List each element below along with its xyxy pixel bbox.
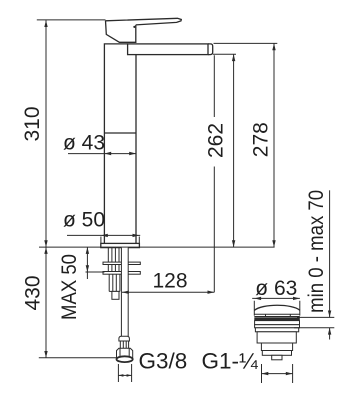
dim MAX 50 arrow down <box>86 265 89 272</box>
dim 262 line <box>233 54 235 247</box>
dim 310 arrow down <box>44 240 47 247</box>
dim 128 extension line from spout end <box>213 55 215 292</box>
dim o43 arrow right <box>129 152 136 155</box>
dim 128 arrow right <box>208 291 215 294</box>
drain bottom dim arrow right <box>286 372 293 375</box>
drain rim lines <box>254 314 299 316</box>
svg-text:ø 63: ø 63 <box>255 277 297 300</box>
dim min-max line upper <box>329 190 331 317</box>
hose neck <box>120 341 128 348</box>
dim min-max ext line lower <box>294 327 334 329</box>
dim o50 ext right <box>138 237 140 244</box>
dim 262 arrow down <box>232 240 235 247</box>
drain small block <box>262 351 291 356</box>
dim o43 line <box>68 153 136 155</box>
body joint line <box>104 132 136 134</box>
drain body block <box>257 332 296 343</box>
drain band 2 <box>255 325 300 328</box>
G3/8 dim ext right <box>131 364 133 382</box>
dim o43 arrow left <box>104 152 111 155</box>
mounting nut <box>109 274 120 291</box>
svg-text:G3/8: G3/8 <box>139 348 188 373</box>
hex nut bottom rim ellipse <box>117 356 133 362</box>
dim o63 arrow left <box>254 297 261 300</box>
hose collar <box>119 336 129 341</box>
counter top line <box>39 246 275 248</box>
dim min-max ext line upper <box>297 316 334 318</box>
threaded stud upper <box>108 248 119 263</box>
drain bottom dim ext left <box>261 364 263 383</box>
drain mid block <box>261 343 292 351</box>
G3/8 dim arrow left <box>118 374 123 377</box>
dim o50 arrow right <box>133 234 140 237</box>
faucet body column <box>104 44 136 244</box>
drain bottom dim ext right <box>292 364 294 383</box>
spout bar <box>128 44 208 55</box>
dim 430 arrow up <box>44 247 47 254</box>
flexible hose <box>121 248 128 337</box>
svg-text:ø 43: ø 43 <box>63 132 105 155</box>
drain dome arc <box>254 305 299 310</box>
dim o63 arrow right <box>293 297 300 300</box>
handle hub <box>106 21 136 43</box>
dim o50 arrow left <box>101 234 108 237</box>
svg-text:min 0 - max 70: min 0 - max 70 <box>305 190 328 313</box>
dim o63 line <box>252 297 300 299</box>
dim MAX 50 tick line <box>86 271 105 273</box>
dim o50 line <box>67 234 140 236</box>
drain bottom dim arrow left <box>262 372 269 375</box>
dim 310 extension line top <box>37 19 106 21</box>
G3/8 dim arrow right <box>127 374 132 377</box>
svg-text:310: 310 <box>21 106 44 141</box>
dim 278 arrow down <box>272 240 275 247</box>
dim 262 extension line <box>213 53 236 55</box>
svg-text:430: 430 <box>22 275 45 310</box>
dim min-max arrow up <box>328 328 331 335</box>
dim 310 arrow up <box>44 20 47 27</box>
base flange <box>101 243 140 247</box>
svg-text:G1-¼: G1-¼ <box>202 348 259 373</box>
svg-text:278: 278 <box>249 122 272 157</box>
threaded stud middle <box>108 265 119 272</box>
handle pivot pin dot <box>133 26 135 28</box>
G3/8 dim ext left <box>117 364 119 382</box>
svg-text:ø 50: ø 50 <box>63 209 105 232</box>
svg-text:128: 128 <box>152 270 187 293</box>
svg-text:262: 262 <box>205 123 228 158</box>
hex nut facet lines <box>119 348 121 359</box>
svg-text:MAX 50: MAX 50 <box>58 254 81 320</box>
dim min-max arrow down <box>328 311 331 318</box>
dim 430 bottom extension line <box>39 357 117 359</box>
dim o50 ext left <box>100 237 102 244</box>
drain gasket band <box>254 317 299 320</box>
dim 310 line <box>45 20 47 247</box>
dim 278 extension line <box>214 42 278 44</box>
G3/8 hex nut <box>117 348 133 359</box>
drain bottom dim line <box>262 373 293 375</box>
dim 278 arrow up <box>272 43 275 50</box>
dim 278 line <box>273 43 275 247</box>
dim 430 line <box>45 247 47 358</box>
dim min-max line lower <box>329 328 331 340</box>
dim MAX 50 line <box>86 247 88 279</box>
spout end cap <box>208 44 213 55</box>
drain band 1 <box>255 321 300 325</box>
stud tip <box>112 291 119 299</box>
dim 128 arrow left <box>122 291 129 294</box>
lever handle blade <box>106 18 182 25</box>
drain cap side edges <box>254 301 299 316</box>
horseshoe washer 1 <box>103 262 140 264</box>
dim 262 arrow up <box>232 54 235 61</box>
dim MAX 50 arrow up <box>86 247 89 254</box>
dim 128 line <box>122 291 214 293</box>
G3/8 dim line <box>118 374 131 376</box>
horseshoe washer 2 <box>103 272 140 275</box>
dim 430 arrow down <box>44 351 47 358</box>
drain bottom tab <box>272 355 282 360</box>
